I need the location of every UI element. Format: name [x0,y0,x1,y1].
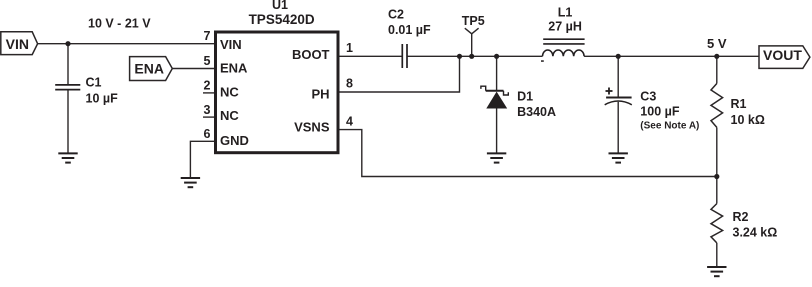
svg-text:3: 3 [204,103,211,117]
svg-text:TPS5420D: TPS5420D [249,12,315,27]
svg-text:U1: U1 [272,0,288,12]
svg-text:3.24 kΩ: 3.24 kΩ [733,226,778,240]
svg-text:PH: PH [311,87,329,102]
svg-text:5: 5 [204,54,211,68]
svg-text:NC: NC [220,108,239,123]
svg-text:GND: GND [220,133,249,148]
svg-text:VIN: VIN [6,36,29,52]
svg-text:C1: C1 [86,76,102,90]
svg-text:10 V - 21 V: 10 V - 21 V [88,17,151,31]
svg-text:BOOT: BOOT [292,47,330,62]
svg-text:R2: R2 [733,210,749,224]
svg-text:7: 7 [204,29,211,43]
svg-text:6: 6 [204,127,211,141]
svg-text:VIN: VIN [220,37,242,52]
svg-text:VOUT: VOUT [763,47,802,63]
svg-text:ENA: ENA [134,60,164,76]
svg-text:10 kΩ: 10 kΩ [731,113,765,127]
svg-text:10 µF: 10 µF [86,91,119,105]
svg-text:L1: L1 [558,6,573,20]
svg-text:1: 1 [346,41,353,55]
svg-text:5 V: 5 V [707,36,727,51]
svg-text:NC: NC [220,84,239,99]
svg-text:R1: R1 [731,97,747,111]
svg-text:(See Note A): (See Note A) [640,120,699,131]
svg-text:C3: C3 [640,89,656,103]
svg-text:D1: D1 [517,90,533,104]
svg-text:100 µF: 100 µF [640,105,680,119]
svg-text:TP5: TP5 [462,14,485,28]
svg-text:4: 4 [346,115,353,129]
svg-text:27 µH: 27 µH [548,19,582,33]
svg-text:8: 8 [346,77,353,91]
svg-text:2: 2 [204,79,211,93]
svg-text:ENA: ENA [220,61,248,76]
svg-text:B340A: B340A [517,105,556,119]
svg-text:VSNS: VSNS [294,120,330,135]
svg-text:0.01 µF: 0.01 µF [388,23,431,37]
svg-text:C2: C2 [388,8,404,22]
